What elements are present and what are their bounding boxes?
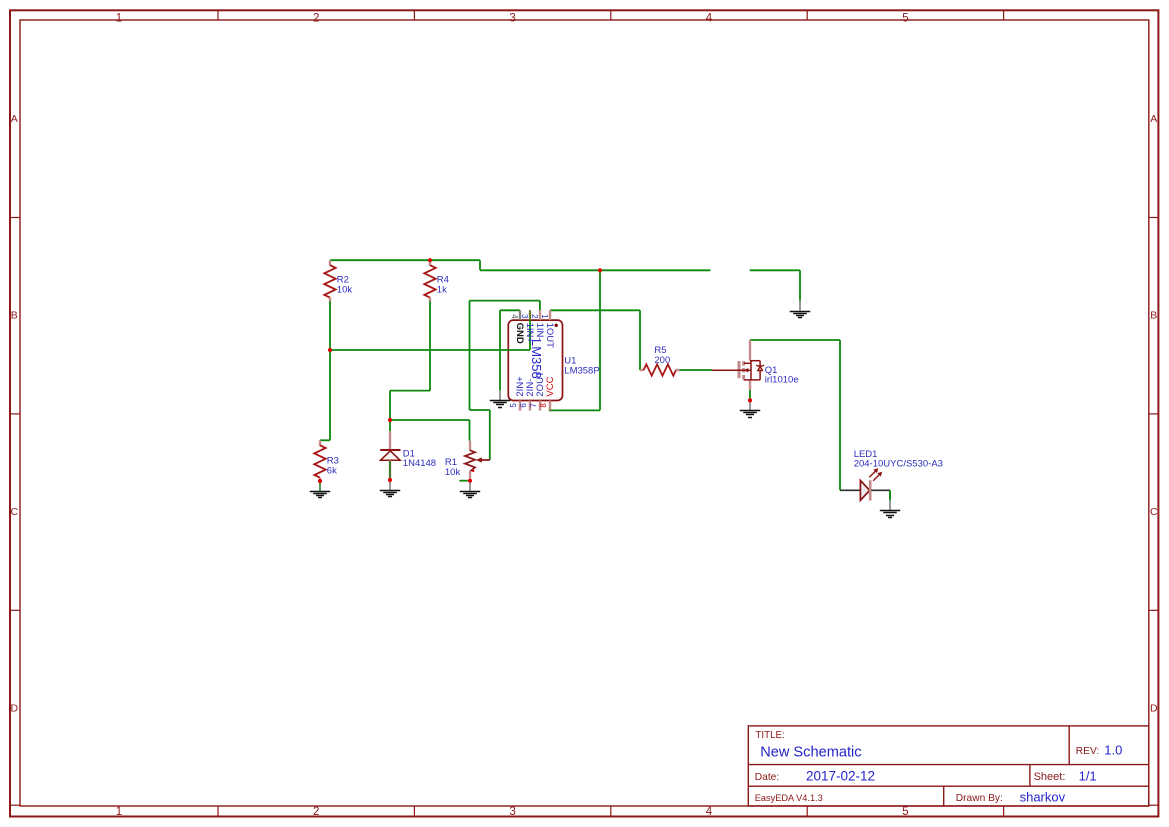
wire down to node D [389, 391, 391, 420]
diode D1 [380, 431, 400, 478]
svg-text:5: 5 [509, 403, 518, 408]
wire step down [479, 260, 481, 270]
LED1 arrow 1 [869, 471, 876, 478]
svg-text:C: C [11, 506, 19, 518]
ground at D1 [380, 480, 401, 497]
wire R4 bottom down [429, 301, 431, 391]
resistor R4 [424, 260, 435, 301]
wire R4 junction to step [430, 259, 480, 261]
svg-text:3: 3 [509, 806, 515, 818]
wire jog to R3 [320, 439, 330, 441]
LED LED1 [840, 468, 890, 500]
svg-text:Drawn By:: Drawn By: [956, 793, 1003, 804]
svg-text:2017-02-12: 2017-02-12 [806, 768, 875, 783]
svg-text:TITLE:: TITLE: [755, 730, 784, 741]
svg-text:D: D [11, 703, 19, 715]
wire 1OUT right [550, 309, 640, 311]
U1 pin 1 stub [549, 310, 551, 320]
wire R1 top drop [469, 420, 471, 441]
svg-text:6k: 6k [327, 465, 337, 476]
svg-text:1: 1 [116, 13, 122, 25]
U1 pin 7 stub [539, 401, 541, 411]
label D1 1N4148 [403, 448, 436, 469]
svg-text:2: 2 [530, 314, 539, 319]
svg-text:10k: 10k [445, 467, 461, 478]
svg-text:6: 6 [519, 403, 528, 408]
ground at Q1 source [740, 400, 761, 417]
wire node B overlay inside body [508, 349, 531, 351]
svg-text:2: 2 [313, 13, 319, 25]
svg-text:A: A [1150, 113, 1157, 125]
svg-text:1IN-: 1IN- [534, 323, 545, 341]
title block frame [748, 726, 1149, 806]
wire pin3 drop [529, 310, 531, 350]
ground at R1 [460, 481, 481, 498]
svg-text:irl1010e: irl1010e [765, 375, 799, 386]
wire node B to pin3 column [330, 349, 530, 351]
svg-text:4: 4 [706, 806, 713, 818]
U1 pin 5 stub [519, 401, 521, 411]
svg-text:3: 3 [520, 314, 529, 319]
ground at supply rail [790, 301, 811, 318]
wire R2 top to R4 top [330, 259, 430, 261]
svg-text:GND: GND [514, 323, 525, 344]
wire R4 jog left [390, 390, 430, 392]
op-amp U1 LM358P body [508, 320, 562, 400]
wire R2 bottom to node B [329, 301, 331, 350]
svg-text:1/1: 1/1 [1079, 768, 1097, 783]
svg-text:3: 3 [509, 13, 515, 25]
wire stub to supply ground [750, 269, 800, 271]
svg-text:1: 1 [540, 314, 549, 319]
resistor R3 [314, 440, 325, 481]
svg-text:10k: 10k [337, 284, 353, 295]
svg-text:204-10UYC/S530-A3: 204-10UYC/S530-A3 [854, 459, 943, 470]
wire stub left of R1 bottom [459, 480, 467, 482]
wire D1 anode to ground junction [389, 461, 391, 479]
wire VCC vertical [599, 270, 601, 410]
wire 1OUT down to R5 [639, 310, 641, 370]
svg-text:C: C [1150, 506, 1158, 518]
row ticks right ruler [1149, 218, 1159, 806]
svg-text:LM358: LM358 [529, 339, 544, 379]
svg-text:4: 4 [706, 13, 713, 25]
svg-text:D: D [1150, 703, 1158, 715]
wire to R1 wiper [489, 410, 491, 460]
resistor R2 [324, 260, 335, 301]
svg-text:B: B [1150, 310, 1157, 322]
U1 pin 3 stub [529, 310, 531, 320]
wire Q1 drain to LED column [750, 339, 840, 341]
svg-text:1.0: 1.0 [1104, 742, 1122, 757]
wire R5 to Q1 gate [680, 369, 713, 371]
U1 pin1 dot [555, 324, 558, 327]
wire pin8 overlay [549, 409, 551, 411]
label R1 10k [445, 457, 461, 478]
column numbers bottom [116, 806, 909, 818]
ground at U1 pin4 [490, 390, 511, 407]
ground at R3 [310, 481, 331, 498]
label Q1 irl1010e [765, 365, 799, 386]
wire node B down [329, 350, 331, 440]
column numbers top [116, 13, 909, 25]
row letters right [1150, 113, 1158, 715]
svg-text:8: 8 [539, 403, 548, 408]
svg-text:200: 200 [654, 355, 670, 366]
svg-text:sharkov: sharkov [1020, 789, 1066, 804]
wire feedback vertical [469, 301, 471, 410]
transistor Q1 irl1010e [712, 340, 764, 390]
wire node D to D1 [389, 420, 391, 431]
junction R1 ground [468, 479, 472, 483]
resistor R5 [640, 364, 680, 375]
junction R3 ground [318, 479, 322, 483]
U1 pin 6 stub [529, 401, 531, 411]
wire supply rail right [480, 269, 710, 271]
ground at LED1 [880, 500, 901, 517]
LED1 arrow 2 [873, 474, 880, 481]
svg-text:LM358P: LM358P [564, 365, 599, 376]
wire node D to R1 top [390, 419, 470, 421]
label LED1 204-10UYC/S530-A3 [854, 449, 943, 470]
label R4 1k [437, 274, 449, 295]
junction node D [388, 418, 392, 422]
svg-text:5: 5 [902, 806, 908, 818]
row ticks left ruler [10, 218, 20, 806]
wire 1IN- drop to pin2 [539, 301, 541, 311]
junction Q1 ground [748, 398, 752, 402]
svg-text:EasyEDA V4.1.3: EasyEDA V4.1.3 [755, 793, 823, 803]
wire 1IN- horizontal [470, 300, 540, 302]
wire IC ground drop [499, 310, 501, 390]
wire D1 anode overlay [389, 460, 391, 478]
junction node B [328, 348, 332, 352]
svg-text:B: B [11, 310, 18, 322]
svg-text:REV:: REV: [1076, 746, 1099, 757]
svg-text:1N4148: 1N4148 [403, 458, 436, 469]
svg-text:VCC: VCC [545, 376, 556, 396]
svg-text:Sheet:: Sheet: [1034, 771, 1066, 783]
label R5 200 [654, 345, 670, 366]
potentiometer R1 [465, 441, 490, 479]
wire supply ground drop [799, 270, 801, 300]
svg-text:New Schematic: New Schematic [760, 744, 861, 760]
wire Q1 source to ground dot [749, 390, 751, 400]
svg-text:1k: 1k [437, 284, 447, 295]
svg-text:Date:: Date: [755, 772, 779, 783]
svg-text:2: 2 [313, 806, 319, 818]
label R3 6k [327, 455, 339, 476]
U1 pin 8 stub [549, 401, 551, 411]
svg-text:5: 5 [902, 13, 908, 25]
junction VCC rail [598, 268, 602, 272]
U1 pin 4 stub [519, 310, 521, 320]
wire pin3 overlay inside body [529, 320, 531, 350]
svg-text:4: 4 [510, 314, 519, 319]
svg-text:1OUT: 1OUT [544, 323, 555, 349]
wire pin4 to ground column [500, 309, 520, 311]
junction R4 top [428, 258, 432, 262]
junction D1 ground [388, 478, 392, 482]
label R2 10k [337, 274, 353, 295]
wire feedback jog [470, 409, 490, 411]
wire VCC to pin8 [550, 409, 600, 411]
U1 pin 2 stub [539, 310, 541, 320]
column ticks bottom ruler [218, 806, 1004, 817]
svg-text:7: 7 [529, 403, 538, 408]
row letters left [11, 113, 19, 715]
wire LED column down [839, 340, 841, 490]
svg-text:1: 1 [116, 806, 122, 818]
label U1 LM358P [564, 356, 599, 377]
svg-text:A: A [11, 113, 18, 125]
column ticks top ruler [218, 10, 1004, 20]
